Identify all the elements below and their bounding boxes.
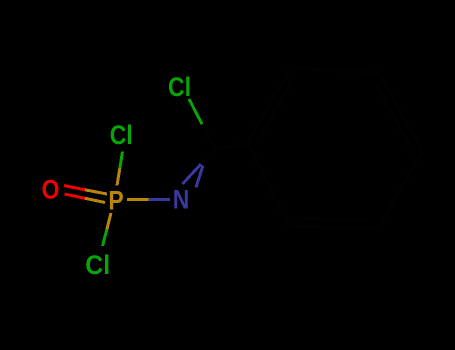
bond P=O double bond upper line (red half) [64,186,85,190]
benzene ring edge V1-V2 [248,68,292,143]
bond N=C inner line (carbon tip) [203,159,205,166]
benzene ring edge V6-V1 [248,143,291,226]
atom label N (nitrogen) [173,185,190,215]
bond N=C main line (blue half) [183,164,202,184]
bond P-Cl upper (green half) [120,152,123,169]
bond P=O double bond lower line (gold half) [85,198,105,202]
bond P-Cl lower (green half) [103,230,107,247]
bond C-Cl top (carbon half) [202,124,215,149]
atom label O (oxygen) [42,175,60,205]
svg-text:Cl: Cl [110,120,133,150]
bond P-Cl upper (gold half) [117,169,120,186]
bond P-N (blue half) [149,198,171,201]
bond P-N (gold half) [127,198,149,201]
atom label Cl (chlorine, on imidoyl C) [168,72,191,102]
atom label P (phosphorus) [108,186,123,216]
bond N=C main line (carbon half) [201,150,215,165]
benzene ring inner double line of edge V3-V4 [377,86,410,145]
benzene ring edge V5-V6 [290,226,378,229]
bond P=O double bond lower line (red half) [65,194,86,198]
bond P=O double bond upper line (gold half) [85,190,107,194]
benzene ring inner double line of edge V5-V6 [300,218,367,220]
benzene ring edge V4-V5 [378,151,422,229]
atom label Cl (chlorine, below P) [85,251,110,280]
benzene ring inner double line of edge V1-V2 [260,81,293,138]
bond N=C inner line (blue part) [196,166,203,188]
svg-text:Cl: Cl [85,251,110,280]
benzene ring edge V2-V3 [291,68,379,73]
bond P-Cl lower (gold half) [107,213,111,230]
benzene ring edge V3-V4 [379,73,422,151]
bond C-Cl top (green half) [189,99,202,124]
svg-text:P: P [108,186,123,216]
bond C-ring (carbon) [215,143,248,150]
svg-text:N: N [173,185,190,215]
svg-text:Cl: Cl [168,72,191,102]
atom label Cl (chlorine, above P) [110,120,133,150]
svg-text:O: O [42,175,60,205]
